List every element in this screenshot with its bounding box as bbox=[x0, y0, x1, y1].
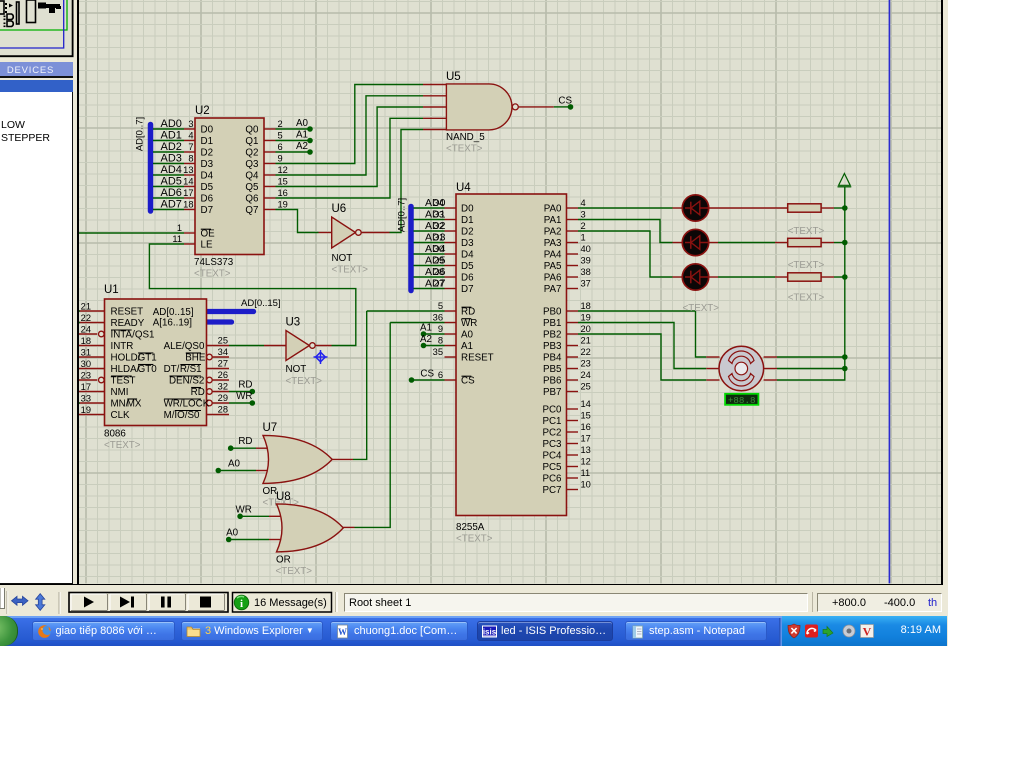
svg-text:D7: D7 bbox=[461, 284, 474, 295]
svg-text:23: 23 bbox=[581, 358, 591, 368]
svg-text:17: 17 bbox=[581, 433, 591, 443]
svg-text:OR: OR bbox=[276, 555, 291, 566]
svg-text:U6: U6 bbox=[332, 203, 347, 215]
svg-text:D4: D4 bbox=[461, 250, 474, 261]
svg-text:40: 40 bbox=[581, 244, 591, 254]
svg-text:37: 37 bbox=[581, 278, 591, 288]
svg-text:AD[0..7]: AD[0..7] bbox=[135, 117, 146, 151]
svg-text:8086: 8086 bbox=[104, 429, 126, 440]
svg-text:PC3: PC3 bbox=[542, 439, 562, 450]
svg-text:D4: D4 bbox=[201, 171, 214, 182]
svg-text:AD7: AD7 bbox=[161, 198, 182, 210]
svg-text:Q5: Q5 bbox=[245, 182, 259, 193]
svg-text:A[16..19]: A[16..19] bbox=[153, 317, 192, 328]
svg-text:PA7: PA7 bbox=[544, 284, 562, 295]
svg-text:WR: WR bbox=[461, 318, 477, 329]
svg-text:<TEXT>: <TEXT> bbox=[788, 226, 825, 237]
svg-text:WR: WR bbox=[235, 504, 251, 515]
svg-text:AD[0..15]: AD[0..15] bbox=[241, 298, 281, 309]
svg-text:D0: D0 bbox=[201, 125, 214, 136]
svg-text:RD: RD bbox=[238, 380, 252, 391]
svg-text:<TEXT>: <TEXT> bbox=[788, 260, 825, 271]
svg-text:PB3: PB3 bbox=[543, 341, 562, 352]
svg-text:+88.8: +88.8 bbox=[728, 395, 756, 406]
svg-text:30: 30 bbox=[434, 244, 444, 254]
svg-text:U3: U3 bbox=[286, 317, 301, 329]
svg-text:PA0: PA0 bbox=[544, 204, 562, 215]
svg-text:38: 38 bbox=[581, 267, 591, 277]
svg-text:<TEXT>: <TEXT> bbox=[683, 303, 720, 314]
svg-text:15: 15 bbox=[581, 410, 591, 420]
svg-text:6: 6 bbox=[438, 370, 443, 380]
svg-text:74LS373: 74LS373 bbox=[194, 257, 234, 268]
svg-text:RESET: RESET bbox=[461, 353, 494, 364]
svg-text:D1: D1 bbox=[461, 215, 474, 226]
svg-text:D7: D7 bbox=[201, 205, 214, 216]
svg-text:<TEXT>: <TEXT> bbox=[332, 265, 369, 276]
svg-text:PA4: PA4 bbox=[544, 250, 562, 261]
svg-text:25: 25 bbox=[581, 381, 591, 391]
svg-text:<TEXT>: <TEXT> bbox=[456, 534, 493, 545]
svg-text:D3: D3 bbox=[201, 159, 214, 170]
svg-text:<TEXT>: <TEXT> bbox=[194, 269, 231, 280]
svg-text:31: 31 bbox=[434, 232, 444, 242]
svg-text:AD4: AD4 bbox=[161, 164, 182, 176]
svg-text:AD6: AD6 bbox=[161, 187, 182, 199]
svg-text:3: 3 bbox=[581, 209, 586, 219]
svg-text:PC0: PC0 bbox=[542, 405, 562, 416]
svg-text:DT/: DT/ bbox=[164, 364, 180, 375]
svg-text:4: 4 bbox=[581, 198, 586, 208]
svg-text:MX: MX bbox=[127, 398, 142, 409]
svg-text:D2: D2 bbox=[201, 148, 214, 159]
svg-text:AD5: AD5 bbox=[161, 175, 182, 187]
svg-text:5: 5 bbox=[278, 130, 283, 140]
svg-text:9: 9 bbox=[438, 324, 443, 334]
svg-text:U4: U4 bbox=[456, 182, 471, 194]
svg-text:PA3: PA3 bbox=[544, 238, 562, 249]
svg-text:RD: RD bbox=[191, 387, 205, 398]
svg-text:27: 27 bbox=[434, 278, 444, 288]
svg-text:TEST: TEST bbox=[111, 375, 136, 386]
svg-text:18: 18 bbox=[81, 336, 91, 346]
svg-text:21: 21 bbox=[581, 335, 591, 345]
svg-text:PB7: PB7 bbox=[543, 387, 562, 398]
svg-text:29: 29 bbox=[218, 393, 228, 403]
svg-text:12: 12 bbox=[278, 165, 288, 175]
svg-text:IO/S0: IO/S0 bbox=[174, 410, 200, 421]
svg-text:33: 33 bbox=[81, 393, 91, 403]
svg-text:19: 19 bbox=[278, 199, 288, 209]
svg-text:READY: READY bbox=[111, 318, 145, 329]
svg-text:36: 36 bbox=[433, 312, 443, 322]
svg-text:16: 16 bbox=[581, 422, 591, 432]
svg-text:Q7: Q7 bbox=[245, 205, 258, 216]
svg-text:Q3: Q3 bbox=[245, 159, 259, 170]
svg-text:isis: isis bbox=[483, 627, 497, 636]
svg-text:CS: CS bbox=[558, 95, 572, 106]
svg-text:Q6: Q6 bbox=[245, 194, 259, 205]
svg-text:32: 32 bbox=[218, 381, 228, 391]
svg-text:AD[0..15]: AD[0..15] bbox=[153, 307, 194, 318]
svg-text:RD: RD bbox=[238, 436, 252, 447]
svg-text:HLDA/: HLDA/ bbox=[111, 364, 140, 375]
svg-text:PB2: PB2 bbox=[543, 330, 562, 341]
svg-text:BHE: BHE bbox=[185, 352, 206, 363]
svg-text:19: 19 bbox=[81, 405, 91, 415]
svg-text:AD0: AD0 bbox=[161, 118, 182, 130]
svg-text:V: V bbox=[863, 625, 872, 639]
svg-text:NOT: NOT bbox=[332, 253, 353, 264]
svg-text:14: 14 bbox=[183, 176, 193, 186]
svg-text:16: 16 bbox=[278, 188, 288, 198]
svg-text:33: 33 bbox=[434, 209, 444, 219]
svg-text:NOT: NOT bbox=[286, 364, 307, 375]
svg-text:U7: U7 bbox=[263, 422, 278, 434]
svg-text:RD: RD bbox=[461, 307, 475, 318]
svg-text:LE: LE bbox=[201, 240, 213, 251]
svg-text:34: 34 bbox=[218, 347, 228, 357]
svg-text:W: W bbox=[338, 627, 347, 637]
svg-text:WR/LOCK: WR/LOCK bbox=[164, 398, 210, 409]
svg-text:D0: D0 bbox=[461, 204, 474, 215]
svg-text:2: 2 bbox=[581, 221, 586, 231]
svg-text:i: i bbox=[240, 598, 243, 610]
svg-text:PA1: PA1 bbox=[544, 215, 562, 226]
svg-text:31: 31 bbox=[81, 347, 91, 357]
svg-text:ALE/QS0: ALE/QS0 bbox=[164, 341, 205, 352]
svg-text:A0: A0 bbox=[461, 330, 474, 341]
svg-text:D5: D5 bbox=[461, 261, 474, 272]
svg-text:PC1: PC1 bbox=[542, 416, 561, 427]
svg-text:<TEXT>: <TEXT> bbox=[276, 566, 313, 577]
svg-text:NAND_5: NAND_5 bbox=[446, 132, 485, 143]
svg-text:8: 8 bbox=[188, 153, 193, 163]
svg-text:20: 20 bbox=[581, 324, 591, 334]
svg-text:GT0: GT0 bbox=[138, 364, 158, 375]
svg-text:<TEXT>: <TEXT> bbox=[286, 376, 323, 387]
svg-text:D2: D2 bbox=[461, 227, 474, 238]
svg-text:INTR: INTR bbox=[111, 341, 134, 352]
svg-text:A0: A0 bbox=[226, 528, 239, 539]
svg-text:10: 10 bbox=[581, 479, 591, 489]
svg-text:35: 35 bbox=[433, 347, 443, 357]
svg-text:24: 24 bbox=[581, 370, 591, 380]
svg-text:OR: OR bbox=[263, 486, 278, 497]
svg-text:Q2: Q2 bbox=[245, 148, 258, 159]
svg-text:PB6: PB6 bbox=[543, 376, 562, 387]
svg-text:27: 27 bbox=[218, 358, 228, 368]
svg-text:Q0: Q0 bbox=[245, 125, 259, 136]
svg-text:AD3: AD3 bbox=[161, 152, 182, 164]
svg-text:U2: U2 bbox=[195, 105, 210, 117]
svg-text:A1: A1 bbox=[420, 322, 432, 333]
svg-text:PA5: PA5 bbox=[544, 261, 562, 272]
svg-text:1: 1 bbox=[581, 232, 586, 242]
svg-text:Q1: Q1 bbox=[245, 136, 258, 147]
svg-text:A1: A1 bbox=[296, 129, 308, 140]
svg-text:3: 3 bbox=[188, 119, 193, 129]
svg-text:29: 29 bbox=[434, 255, 444, 265]
svg-text:30: 30 bbox=[81, 359, 91, 369]
svg-text:OE: OE bbox=[201, 229, 216, 240]
svg-text:U5: U5 bbox=[446, 71, 461, 83]
svg-text:18: 18 bbox=[183, 199, 193, 209]
svg-text:AD[0..7]: AD[0..7] bbox=[396, 198, 407, 232]
svg-text:D1: D1 bbox=[201, 136, 214, 147]
svg-text:21: 21 bbox=[81, 301, 91, 311]
svg-text:13: 13 bbox=[581, 445, 591, 455]
svg-text:11: 11 bbox=[581, 468, 591, 478]
svg-text:/QS1: /QS1 bbox=[132, 329, 154, 340]
svg-text:7: 7 bbox=[188, 142, 193, 152]
svg-text:U1: U1 bbox=[104, 284, 119, 296]
svg-text:<TEXT>: <TEXT> bbox=[788, 293, 825, 304]
svg-text:11: 11 bbox=[172, 234, 182, 244]
svg-text:22: 22 bbox=[81, 313, 91, 323]
svg-text:HOLD/: HOLD/ bbox=[111, 352, 141, 363]
svg-text:28: 28 bbox=[434, 267, 444, 277]
svg-text:NMI: NMI bbox=[111, 387, 129, 398]
svg-text:CLK: CLK bbox=[111, 410, 131, 421]
svg-text:34: 34 bbox=[434, 198, 444, 208]
svg-text:A0: A0 bbox=[228, 459, 241, 470]
svg-text:26: 26 bbox=[218, 370, 228, 380]
svg-text:AD2: AD2 bbox=[161, 141, 182, 153]
svg-text:PC5: PC5 bbox=[542, 462, 562, 473]
svg-text:4: 4 bbox=[188, 130, 193, 140]
svg-text:R/S1: R/S1 bbox=[180, 364, 202, 375]
svg-text:A1: A1 bbox=[461, 341, 473, 352]
svg-text:<TEXT>: <TEXT> bbox=[104, 440, 141, 451]
svg-text:M/: M/ bbox=[164, 410, 175, 421]
svg-text:PB4: PB4 bbox=[543, 353, 562, 364]
svg-text:6: 6 bbox=[278, 142, 283, 152]
svg-text:PA2: PA2 bbox=[544, 227, 562, 238]
svg-text:PC4: PC4 bbox=[542, 451, 562, 462]
svg-text:PC2: PC2 bbox=[542, 428, 561, 439]
svg-text:INTA: INTA bbox=[111, 329, 133, 340]
svg-text:25: 25 bbox=[218, 335, 228, 345]
svg-text:AD1: AD1 bbox=[161, 129, 182, 141]
svg-text:14: 14 bbox=[581, 399, 591, 409]
svg-text:18: 18 bbox=[581, 301, 591, 311]
svg-text:CS: CS bbox=[461, 376, 475, 387]
svg-text:WR: WR bbox=[236, 391, 252, 402]
svg-text:GT1: GT1 bbox=[138, 352, 157, 363]
svg-text:19: 19 bbox=[581, 312, 591, 322]
svg-text:PB1: PB1 bbox=[543, 318, 562, 329]
svg-text:PB5: PB5 bbox=[543, 364, 562, 375]
svg-text:8: 8 bbox=[438, 335, 443, 345]
svg-text:PA6: PA6 bbox=[544, 273, 562, 284]
svg-text:2: 2 bbox=[278, 119, 283, 129]
svg-text:CS: CS bbox=[420, 368, 434, 379]
svg-text:12: 12 bbox=[581, 456, 591, 466]
svg-text:A2: A2 bbox=[296, 141, 308, 152]
svg-text:5: 5 bbox=[438, 301, 443, 311]
svg-text:U8: U8 bbox=[276, 491, 291, 503]
svg-text:DEN/S2: DEN/S2 bbox=[169, 375, 204, 386]
svg-text:RESET: RESET bbox=[111, 306, 144, 317]
svg-text:D5: D5 bbox=[201, 182, 214, 193]
svg-text:Q4: Q4 bbox=[245, 171, 259, 182]
svg-text:13: 13 bbox=[183, 165, 193, 175]
svg-text:PC7: PC7 bbox=[542, 485, 561, 496]
svg-text:PB0: PB0 bbox=[543, 307, 562, 318]
svg-text:1: 1 bbox=[177, 223, 182, 233]
svg-text:17: 17 bbox=[183, 188, 193, 198]
svg-text:D3: D3 bbox=[461, 238, 474, 249]
svg-text:32: 32 bbox=[434, 221, 444, 231]
svg-text:8255A: 8255A bbox=[456, 522, 485, 533]
svg-text:15: 15 bbox=[278, 176, 288, 186]
svg-text:17: 17 bbox=[81, 382, 91, 392]
svg-text:28: 28 bbox=[218, 404, 228, 414]
svg-text:39: 39 bbox=[581, 255, 591, 265]
svg-text:9: 9 bbox=[278, 153, 283, 163]
svg-text:23: 23 bbox=[81, 370, 91, 380]
svg-text:<TEXT>: <TEXT> bbox=[446, 144, 483, 155]
svg-text:A0: A0 bbox=[296, 118, 309, 129]
svg-text:D6: D6 bbox=[461, 273, 474, 284]
svg-text:A2: A2 bbox=[420, 334, 432, 345]
svg-text:22: 22 bbox=[581, 347, 591, 357]
svg-text:24: 24 bbox=[81, 324, 91, 334]
svg-text:PC6: PC6 bbox=[542, 474, 562, 485]
svg-text:D6: D6 bbox=[201, 194, 214, 205]
